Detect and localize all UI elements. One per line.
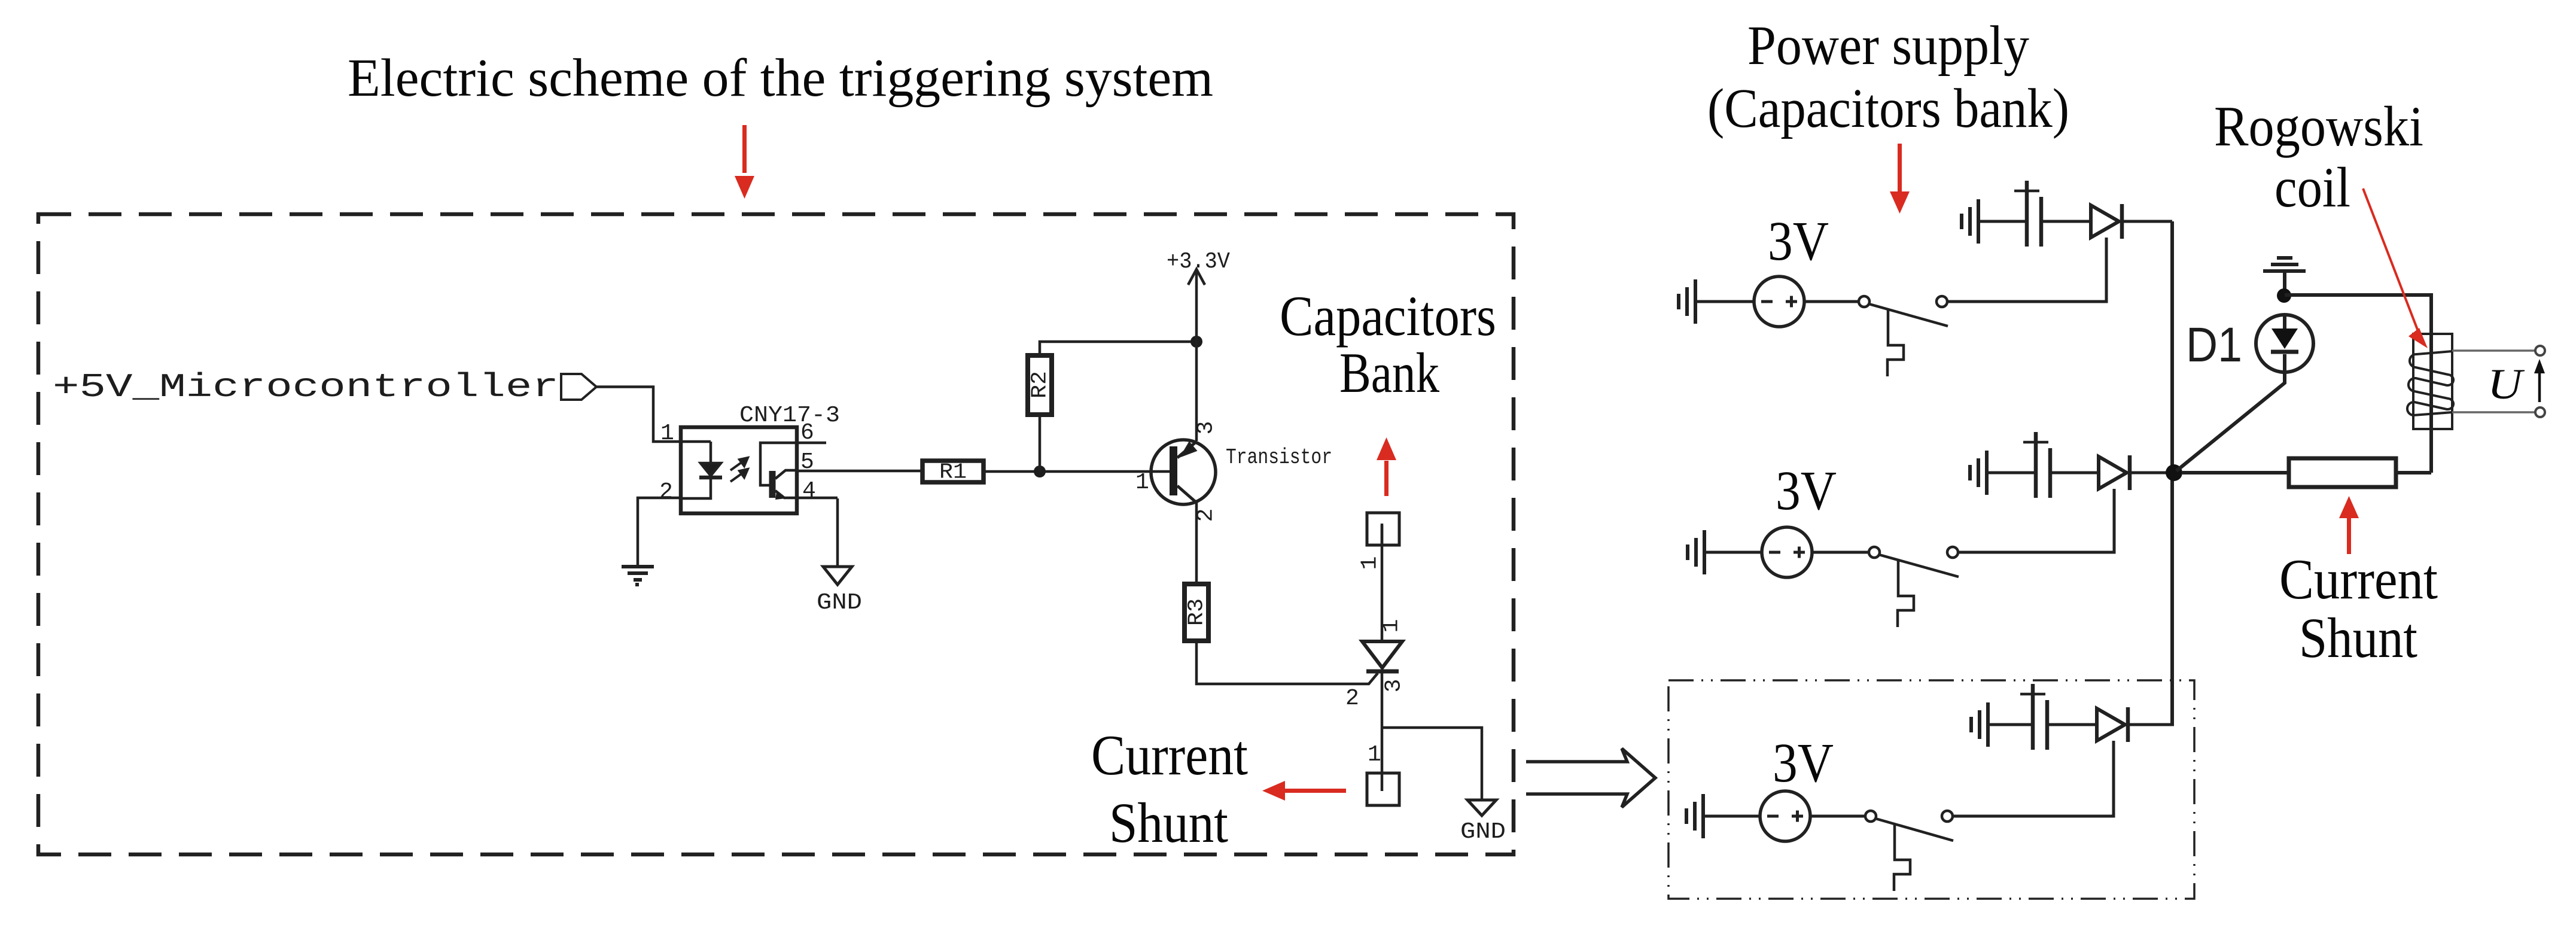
LED inside optocoupler [681, 442, 722, 498]
light arrows inside optocoupler [730, 458, 748, 482]
svg-text:1: 1 [1135, 470, 1149, 495]
thyristor pin 1 label upper (rotated) [1379, 619, 1405, 633]
rogowski coil winding [2407, 351, 2453, 415]
earth ground, capacitor 3 [1971, 702, 1988, 747]
wire battery to switch 3 [1810, 815, 1865, 818]
wire switch 1 to diode branch [1947, 238, 2106, 302]
svg-text:GND: GND [817, 590, 862, 616]
transistor collector stroke with arrow [1177, 442, 1196, 458]
Shunt label (right) [2299, 606, 2417, 670]
U label [2487, 360, 2525, 408]
wire junction to R2 [1039, 415, 1042, 471]
wire ground to battery 3 [1703, 815, 1760, 818]
wire to U terminal bottom [2452, 411, 2535, 413]
transistor pin 2 label (rotated) [1193, 509, 1219, 522]
wire to U terminal top [2452, 349, 2535, 352]
svg-text:U: U [2487, 360, 2525, 408]
svg-text:+3.3V: +3.3V [1167, 249, 1230, 275]
wire rogowski loop right side down [2429, 334, 2433, 473]
(Capacitors bank) title [1707, 78, 2069, 139]
svg-text:Transistor: Transistor [1226, 445, 1332, 470]
red arrow to Capacitors Bank label [1377, 437, 1396, 496]
wire pin4 to GND symbol [836, 498, 839, 567]
resistor R3 [1185, 584, 1208, 641]
3V label cell 2 [1776, 460, 1837, 522]
node +5V_Microcontroller label [53, 368, 559, 406]
wire ground to capacitor 1 [1978, 220, 2027, 223]
switch SW1 open contacts [1859, 296, 1948, 326]
svg-text:Current: Current [1091, 723, 1248, 787]
title: Electric scheme of the triggering system [348, 48, 1213, 108]
svg-text:1: 1 [1357, 556, 1383, 570]
svg-text:Shunt: Shunt [2299, 606, 2417, 670]
battery source 3V cell 3 [1760, 791, 1810, 841]
svg-text:3: 3 [1193, 421, 1219, 435]
svg-text:R1: R1 [939, 460, 967, 485]
wire diode 3 to bus [2128, 723, 2174, 726]
3V label cell 1 [1768, 211, 1829, 272]
connector square to capacitors bank [1367, 513, 1399, 545]
svg-text:Shunt: Shunt [1109, 791, 1228, 854]
wire emitter to R3 [1195, 503, 1198, 584]
pin 6 label [800, 420, 814, 446]
big hollow arrow to power-supply drawing [1526, 749, 1655, 807]
battery source 3V cell 1 [1754, 276, 1804, 327]
main bus wire from cell 1 down to cell 3 [2170, 221, 2174, 725]
svg-text:2: 2 [659, 479, 673, 505]
earth ground, cell 2 battery side [1688, 530, 1704, 574]
Current label (left) [1091, 723, 1248, 787]
svg-text:3V: 3V [1773, 732, 1834, 794]
wire battery to switch 2 [1812, 551, 1868, 554]
rogowski coil core rectangle [2413, 334, 2452, 429]
wire junction to current shunt [2182, 471, 2289, 474]
R2 label [1028, 371, 1052, 399]
U terminal bottom circle [2535, 407, 2545, 417]
transistor base bar [1170, 446, 1177, 495]
svg-text:Current: Current [2279, 547, 2438, 611]
+3.3V power symbol [1188, 269, 1205, 342]
svg-text:Rogowski: Rogowski [2214, 95, 2423, 158]
3V label cell 3 [1773, 732, 1834, 794]
+3.3V label [1167, 249, 1230, 275]
svg-text:coil: coil [2274, 156, 2350, 219]
red arrow from title to triggering-system box [735, 125, 754, 199]
diode cell 2 [2099, 455, 2130, 490]
GND label bottom [1460, 819, 1506, 845]
svg-text:4: 4 [802, 478, 816, 504]
wire switch 2 to diode branch [1958, 489, 2114, 552]
GND symbol bottom [1467, 800, 1496, 816]
transistor pin 3 label (rotated) [1193, 421, 1219, 435]
resistor R1 [922, 461, 983, 482]
svg-text:GND: GND [1460, 819, 1506, 845]
transistor emitter stroke [1177, 486, 1196, 503]
svg-text:CNY17-3: CNY17-3 [739, 403, 840, 428]
GND symbol at optocoupler pin 4 [823, 567, 852, 585]
battery source 3V cell 2 [1762, 527, 1812, 577]
thyristor gate pin 2 label [1345, 686, 1359, 711]
wire capacitor to diode 2 [2050, 471, 2099, 474]
switch SW2 actuator [1898, 561, 1914, 627]
earth ground at optocoupler pin 2 [622, 567, 654, 585]
pin 1 label [660, 421, 674, 446]
diode D1 body [2256, 315, 2313, 372]
red arrow below power supply title [1890, 144, 1910, 214]
earth ground above D1 [2263, 258, 2306, 296]
wire diode 1 to bus [2122, 220, 2172, 223]
switch SW3 actuator [1894, 825, 1910, 891]
switch SW2 open contacts [1869, 547, 1959, 577]
earth ground, capacitor 1 [1962, 199, 1978, 244]
R3 label [1185, 598, 1209, 626]
wire from +5V connector to optocoupler pin 1 [596, 387, 711, 442]
capacitor C2 [2023, 432, 2050, 498]
svg-text:R3: R3 [1185, 598, 1209, 626]
phototransistor inside optocoupler [760, 443, 838, 500]
branch wire to GND [1382, 728, 1482, 799]
diode cell 1 [2091, 204, 2122, 239]
thyristor pin 3 label (rotated) [1381, 679, 1407, 693]
wire capacitor to diode 3 [2047, 723, 2097, 726]
Bank label [1339, 341, 1439, 404]
thyristor pin 1 label lower (rotated) [1357, 556, 1383, 570]
R1 label [939, 460, 967, 485]
wire R2 top to +3.3V rail [1040, 342, 1196, 355]
wire current shunt to rogowski loop [2396, 471, 2431, 474]
transistor Q1 body circle [1151, 440, 1216, 504]
label CNY17-3 [739, 403, 840, 428]
svg-text:Capacitors: Capacitors [1280, 284, 1496, 348]
pin 5 label [800, 449, 814, 475]
current shunt resistor body [2289, 458, 2396, 487]
dashed border of triggering-system block [38, 214, 1514, 854]
coil label [2274, 156, 2350, 219]
svg-text:Electric scheme of the trigger: Electric scheme of the triggering system [348, 48, 1213, 108]
capacitor C3 [2020, 684, 2047, 750]
diode cell 3 [2097, 707, 2128, 742]
connector square to current shunt [1367, 773, 1399, 805]
wire battery to switch 1 [1804, 300, 1858, 303]
wire ground to capacitor 3 [1988, 723, 2033, 726]
Current label (right) [2279, 547, 2438, 611]
junction node at +3.3V rail [1190, 336, 1202, 348]
wire switch 3 to diode branch [1953, 741, 2114, 816]
switch SW1 actuator [1887, 310, 1904, 376]
switch SW3 open contacts [1865, 811, 1953, 841]
svg-text:Power supply: Power supply [1747, 15, 2029, 77]
dash-dot border around cell 3 [1668, 680, 2194, 899]
connector flag for +5V_Microcontroller [561, 374, 596, 400]
red arrow to current shunt [2339, 496, 2359, 554]
U polarity arrow [2534, 359, 2545, 402]
earth ground, cell 3 battery side [1686, 794, 1703, 838]
earth ground, capacitor 2 [1970, 451, 1987, 495]
thyristor triangle and cathode bar [1362, 641, 1402, 671]
svg-text:D1: D1 [2186, 318, 2242, 372]
svg-text:3V: 3V [1768, 211, 1829, 272]
wire D1 node to rogowski loop top [2285, 295, 2431, 334]
transistor pin 1 label [1135, 470, 1149, 495]
wire ground to battery 1 [1695, 300, 1754, 303]
wire pin2 to earth ground [638, 498, 681, 565]
GND label [817, 590, 862, 616]
wire R1 to base junction [983, 470, 1170, 473]
svg-text:3: 3 [1381, 679, 1407, 693]
wire R3 to thyristor gate [1196, 641, 1378, 684]
svg-text:R2: R2 [1028, 371, 1052, 399]
svg-text:2: 2 [1345, 686, 1359, 711]
Capacitors label [1280, 284, 1496, 348]
Rogowski label [2214, 95, 2423, 158]
wire diode 2 to bus [2130, 471, 2168, 474]
wire thyristor anode to capacitors-bank connector [1381, 524, 1384, 641]
U terminal top circle [2535, 346, 2545, 355]
wire ground to battery 2 [1704, 551, 1762, 554]
wire +3.3V rail down to transistor collector [1195, 342, 1198, 441]
svg-text:Bank: Bank [1339, 341, 1439, 404]
svg-text:+5V_Microcontroller: +5V_Microcontroller [53, 368, 559, 406]
capacitor C1 [2014, 181, 2041, 247]
wire D1 anode diagonal to bus junction [2176, 372, 2285, 471]
resistor R2 [1028, 355, 1052, 415]
pin 4 label [802, 478, 816, 504]
svg-text:1: 1 [1368, 742, 1381, 768]
svg-text:(Capacitors bank): (Capacitors bank) [1707, 78, 2069, 139]
wire ground to capacitor 2 [1987, 471, 2036, 474]
red pointer line from coil label to rogowski coil [2363, 188, 2428, 348]
junction node at R2 bottom [1034, 466, 1046, 477]
junction node on bus at cell 2 [2166, 464, 2182, 481]
D1 label [2186, 318, 2242, 372]
wire capacitor to diode 1 [2041, 220, 2091, 223]
thyristor pin 1 label at shunt connector [1368, 742, 1381, 768]
earth ground, cell 1 battery side [1679, 279, 1695, 324]
svg-text:3V: 3V [1776, 460, 1837, 522]
wire thyristor cathode down to shunt connector [1381, 671, 1384, 773]
red arrow from shunt connector to Current Shunt label [1262, 781, 1346, 801]
Shunt label (left) [1109, 791, 1228, 854]
pin 2 label [659, 479, 673, 505]
optocoupler U1 CNY17-3 body [681, 427, 797, 513]
junction node above D1 [2277, 288, 2291, 303]
svg-text:1: 1 [660, 421, 674, 446]
wire pin5 to R1 [797, 470, 922, 473]
Power supply title [1747, 15, 2029, 77]
Transistor label [1226, 445, 1332, 470]
